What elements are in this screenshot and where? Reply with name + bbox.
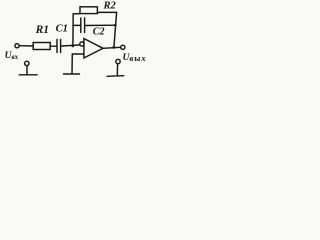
svg-text:Uвх: Uвх bbox=[5, 51, 19, 61]
svg-text:Uвых: Uвых bbox=[123, 53, 147, 63]
svg-text:C1: C1 bbox=[56, 24, 68, 35]
svg-text:R1: R1 bbox=[35, 24, 49, 36]
svg-text:R2: R2 bbox=[103, 1, 117, 12]
svg-text:C2: C2 bbox=[93, 27, 105, 38]
